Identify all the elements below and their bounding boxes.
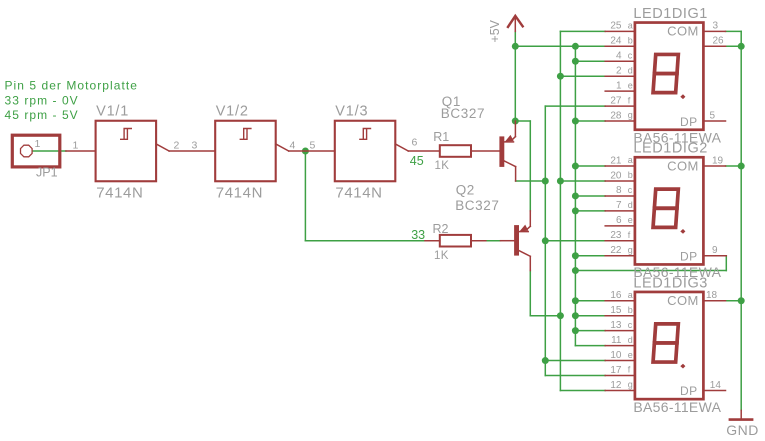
svg-text:V1/2: V1/2 [216, 104, 249, 120]
svg-text:g: g [628, 245, 633, 255]
svg-text:GND: GND [726, 422, 759, 438]
svg-text:45: 45 [410, 154, 424, 168]
svg-text:23: 23 [610, 230, 622, 241]
svg-text:a: a [628, 155, 633, 165]
svg-text:16: 16 [610, 290, 622, 301]
svg-text:DP: DP [680, 384, 697, 398]
svg-text:3: 3 [192, 139, 198, 151]
svg-text:7414N: 7414N [216, 184, 263, 201]
svg-text:8: 8 [616, 185, 622, 196]
svg-text:1: 1 [73, 139, 79, 151]
svg-text:24: 24 [610, 36, 622, 47]
svg-text:LED1DIG3: LED1DIG3 [633, 275, 708, 291]
svg-text:4: 4 [290, 139, 296, 151]
svg-text:21: 21 [610, 155, 622, 166]
svg-text:g: g [628, 110, 633, 120]
svg-text:R1: R1 [433, 130, 449, 144]
svg-text:a: a [628, 290, 633, 300]
svg-text:DP: DP [680, 115, 697, 129]
svg-text:17: 17 [610, 365, 622, 376]
svg-text:Q2: Q2 [456, 183, 475, 198]
svg-text:COM: COM [667, 24, 699, 39]
svg-text:BC327: BC327 [441, 106, 485, 121]
svg-text:20: 20 [610, 170, 622, 181]
svg-text:4: 4 [616, 51, 622, 62]
svg-text:+5V: +5V [488, 19, 502, 42]
svg-text:18: 18 [706, 290, 718, 301]
svg-text:c: c [628, 51, 633, 61]
svg-text:27: 27 [610, 95, 622, 106]
svg-text:12: 12 [610, 380, 622, 391]
svg-text:7414N: 7414N [96, 184, 143, 201]
svg-text:33: 33 [411, 228, 425, 242]
svg-text:LED1DIG2: LED1DIG2 [633, 141, 708, 157]
svg-text:e: e [628, 80, 633, 90]
svg-text:9: 9 [712, 245, 718, 256]
svg-text:e: e [628, 215, 633, 225]
svg-text:1: 1 [35, 138, 41, 150]
svg-text:1: 1 [616, 81, 622, 92]
svg-text:10: 10 [610, 350, 622, 361]
svg-text:COM: COM [667, 158, 699, 173]
svg-text:V1/3: V1/3 [335, 104, 368, 120]
svg-text:7: 7 [616, 200, 622, 211]
svg-text:6: 6 [412, 137, 418, 149]
svg-text:c: c [628, 320, 633, 330]
svg-text:5: 5 [310, 139, 316, 151]
svg-text:28: 28 [610, 110, 622, 121]
svg-text:BC327: BC327 [455, 198, 499, 213]
svg-text:V1/1: V1/1 [96, 104, 129, 120]
svg-text:15: 15 [610, 305, 622, 316]
svg-text:b: b [628, 36, 633, 46]
svg-text:g: g [628, 380, 633, 390]
svg-text:6: 6 [616, 215, 622, 226]
svg-text:DP: DP [680, 249, 697, 263]
svg-text:LED1DIG1: LED1DIG1 [633, 6, 708, 22]
svg-text:1K: 1K [435, 160, 450, 172]
svg-text:25: 25 [610, 21, 622, 32]
svg-text:14: 14 [710, 380, 722, 391]
svg-text:BA56-11EWA: BA56-11EWA [633, 399, 721, 415]
svg-text:3: 3 [713, 21, 719, 32]
svg-text:5: 5 [710, 110, 716, 121]
svg-text:2: 2 [174, 139, 180, 151]
svg-text:d: d [628, 200, 633, 210]
svg-text:d: d [628, 335, 633, 345]
svg-text:1K: 1K [434, 250, 449, 262]
svg-text:d: d [628, 65, 633, 75]
svg-text:e: e [628, 350, 633, 360]
svg-text:COM: COM [667, 293, 699, 308]
svg-text:11: 11 [611, 335, 622, 346]
svg-text:R2: R2 [433, 222, 449, 236]
svg-text:19: 19 [712, 155, 724, 166]
svg-text:a: a [628, 21, 633, 31]
svg-text:JP1: JP1 [36, 166, 58, 180]
svg-text:13: 13 [610, 320, 622, 331]
svg-text:c: c [628, 185, 633, 195]
svg-text:7414N: 7414N [335, 184, 382, 201]
svg-text:33 rpm - 0V: 33 rpm - 0V [5, 93, 79, 107]
svg-text:26: 26 [713, 36, 725, 47]
svg-text:45 rpm - 5V: 45 rpm - 5V [5, 108, 79, 122]
svg-text:b: b [628, 305, 633, 315]
svg-text:2: 2 [616, 66, 622, 77]
svg-text:Pin 5 der Motorplatte: Pin 5 der Motorplatte [5, 79, 138, 93]
svg-text:b: b [628, 170, 633, 180]
svg-text:22: 22 [610, 245, 622, 256]
